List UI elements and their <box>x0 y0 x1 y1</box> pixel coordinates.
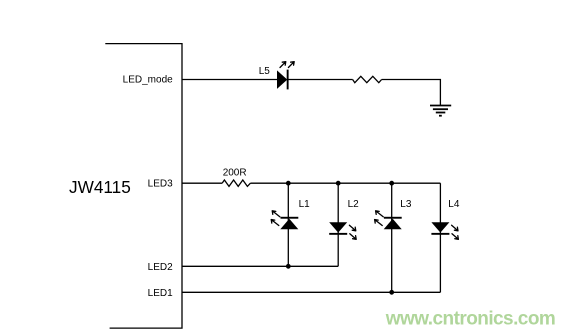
svg-text:LED3: LED3 <box>148 179 173 190</box>
svg-text:LED_mode: LED_mode <box>123 74 173 85</box>
svg-text:L1: L1 <box>299 199 311 210</box>
svg-text:L5: L5 <box>259 66 271 77</box>
svg-text:www.cntronics.com: www.cntronics.com <box>385 309 555 330</box>
svg-text:LED1: LED1 <box>148 288 173 299</box>
svg-text:L3: L3 <box>400 199 412 210</box>
svg-text:L2: L2 <box>348 199 360 210</box>
svg-text:L4: L4 <box>448 199 460 210</box>
svg-text:200R: 200R <box>223 168 247 179</box>
svg-text:LED2: LED2 <box>148 262 173 273</box>
svg-text:JW4115: JW4115 <box>69 177 131 197</box>
